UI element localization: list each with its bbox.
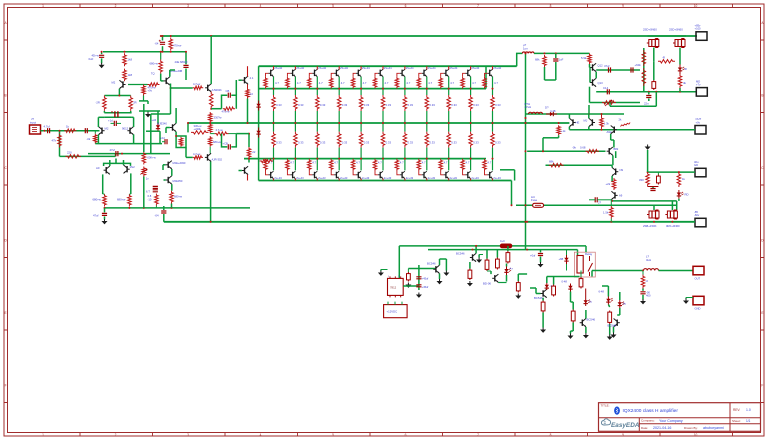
svg-text:0.33: 0.33: [408, 141, 414, 145]
wire r62 elbow: [139, 101, 148, 104]
svg-text:AJR-302: AJR-302: [212, 157, 223, 161]
svg-text:0.33: 0.33: [276, 141, 282, 145]
svg-text:-0: -0: [646, 279, 649, 283]
label R16: [128, 58, 133, 62]
wire servo top row: [526, 113, 625, 115]
label C14: [603, 86, 609, 90]
resistor R4c 0.33 lower: [337, 132, 341, 148]
transistor Q23 source: [119, 80, 125, 88]
diode D10 LED: [584, 298, 591, 306]
svg-text:0uF: 0uF: [89, 57, 94, 61]
svg-text:BC546: BC546: [587, 318, 596, 322]
label Q10b: [471, 176, 479, 180]
transistor Q2a 2SC5200 upper: [290, 66, 295, 76]
label R25: [216, 128, 223, 132]
svg-text:+2k: +2k: [606, 182, 611, 186]
svg-text:GND: GND: [695, 307, 701, 311]
label Q4b: [340, 176, 348, 180]
wire collector col low 10: [470, 158, 472, 171]
ground GND10: [476, 258, 482, 263]
wire mirror emitters: [103, 173, 131, 194]
svg-text:4.7: 4.7: [472, 81, 476, 85]
label R1b value: [276, 103, 282, 107]
label C10: [226, 89, 230, 93]
resistor R44 1.5k: [610, 200, 614, 222]
wire row132 left: [187, 122, 189, 132]
svg-text:680+w: 680+w: [150, 62, 159, 66]
label Q5b: [362, 176, 370, 180]
resistor R20 680K: [142, 152, 146, 165]
resistor R6d 4.7 base lower: [373, 159, 378, 175]
wire right gate drop: [676, 201, 678, 210]
label R63: [96, 101, 100, 105]
wire emitter col mid 3: [316, 111, 318, 132]
svg-text:-R: -R: [662, 56, 665, 60]
label R27: [222, 109, 230, 113]
wire gate rail2: [611, 200, 677, 202]
svg-text:2S+d4: 2S+d4: [318, 66, 326, 70]
wire q34 row: [596, 69, 640, 71]
wire base q44: [530, 288, 541, 294]
wire emitter col upper 8: [426, 77, 428, 95]
svg-text:A+: A+: [510, 267, 514, 271]
svg-text:680+w: 680+w: [213, 140, 221, 144]
label R11a value: [494, 81, 498, 85]
wire gnd10 stub: [479, 255, 483, 258]
svg-text:4.7+w: 4.7+w: [193, 152, 200, 156]
resistor R35 4k: [678, 74, 682, 88]
svg-text:+0d: +0d: [160, 136, 165, 140]
wire emitter col upper 2: [294, 77, 296, 95]
label R22: [148, 194, 152, 201]
svg-text:7812: 7812: [390, 286, 397, 290]
wire m1 source down: [653, 48, 655, 81]
wire bc546a net: [408, 265, 436, 272]
wire collector col low 7: [404, 158, 406, 171]
resistor R7a 4.7 base upper: [395, 73, 400, 88]
label C6: [93, 214, 99, 218]
svg-text:68k: 68k: [549, 159, 554, 163]
resistor R9c 0.33 lower: [447, 132, 451, 148]
wire v236 up: [235, 80, 237, 95]
diode D13: [156, 124, 160, 131]
label D7: [559, 257, 564, 261]
label Q35: [598, 81, 604, 85]
capacitor C9 CB lower: [228, 144, 230, 149]
svg-text:BC546: BC546: [456, 252, 465, 256]
wire d11 chain: [608, 290, 609, 335]
svg-text:4.7: 4.7: [363, 81, 367, 85]
svg-text:2S+d4: 2S+d4: [384, 66, 392, 70]
transistor Q39 servo: [569, 118, 575, 126]
diode D5 4148: [546, 112, 557, 116]
svg-text:330?w: 330?w: [214, 116, 222, 120]
wire q42 up: [475, 245, 477, 253]
wire emitter rail: [95, 134, 162, 143]
label R5c value: [364, 141, 370, 145]
svg-text:0.33: 0.33: [320, 141, 326, 145]
svg-text:E: E: [761, 311, 763, 315]
transistor Q43 BD140: [492, 274, 498, 282]
label J1: [30, 117, 36, 124]
junction fuse rail: [511, 204, 513, 206]
wire output bus: [188, 122, 569, 124]
label R8a value: [428, 81, 432, 85]
ground GND18: [640, 299, 646, 304]
svg-text:8: 8: [550, 4, 552, 8]
resistor R4a 4.7 base upper: [329, 73, 334, 88]
label L1: [523, 43, 528, 50]
svg-text:MJE+d030: MJE+d030: [173, 161, 186, 165]
resistor R7c 0.33 lower: [403, 132, 407, 148]
wire emitter col upper 7: [404, 77, 406, 95]
label C11: [559, 58, 564, 62]
wire vas column: [143, 104, 145, 208]
transistor Q32 pre-driver lower: [242, 166, 248, 180]
wire vbe stub: [175, 132, 177, 137]
wire collector col low 9: [448, 158, 450, 171]
connector P3 OUT: [695, 126, 706, 135]
wire q39 tips: [568, 114, 570, 130]
ground GND14: [568, 334, 574, 339]
wire gnd19 stub: [686, 298, 693, 299]
wire gnd3 stub: [647, 150, 649, 172]
label C18: [598, 201, 602, 205]
label R13: [52, 139, 57, 143]
svg-text:-00K+w: -00K+w: [147, 156, 156, 160]
svg-text:+7v: +7v: [696, 82, 701, 86]
label Q8b: [428, 176, 436, 180]
wire q28 up: [175, 108, 177, 123]
label Q24: [96, 166, 100, 170]
svg-text:2S+d4: 2S+d4: [340, 66, 348, 70]
resistor R46 1.3k: [600, 114, 604, 130]
svg-text:4.7: 4.7: [290, 160, 294, 164]
resistor R38 330: [646, 172, 650, 186]
svg-text:A9: A9: [619, 193, 623, 197]
transistor Q8a 2SC5200 upper: [422, 66, 427, 76]
svg-text:6: 6: [405, 4, 407, 8]
svg-text:1/1: 1/1: [746, 419, 751, 423]
svg-text:+45uf: +45uf: [422, 277, 429, 281]
label Q40: [584, 119, 588, 123]
svg-text:1k8: 1k8: [128, 73, 133, 77]
svg-text:0RF+0N60: 0RF+0N60: [666, 224, 680, 228]
transistor Q8b 2SA1943 lower: [422, 171, 427, 180]
diode D9 0.48: [568, 284, 572, 292]
svg-text:2S+d4: 2S+d4: [406, 66, 414, 70]
label P5: [694, 210, 700, 217]
ground GND3 inverted: [645, 145, 651, 150]
svg-text:B: B: [761, 94, 763, 98]
svg-text:1: 1: [42, 433, 44, 437]
wire q29 collector: [210, 36, 212, 84]
label R21: [174, 195, 182, 199]
ground GND19: [683, 299, 689, 304]
wire r55 gnd: [571, 323, 574, 334]
capacitor C11 1uF: [553, 53, 558, 80]
wire q23 emitter down: [118, 89, 120, 96]
junction neg rail: [104, 207, 173, 209]
svg-text:N9: N9: [620, 168, 624, 172]
svg-text:470+w: 470+w: [173, 44, 182, 48]
resistor R1a 4.7 base upper: [264, 73, 269, 88]
ground GND4: [378, 271, 384, 276]
resistor R50 box: [496, 250, 500, 270]
transistor Q27 MJE350: [166, 176, 172, 184]
transistor Q9a 2SC5200 upper: [444, 66, 449, 76]
resistor R4b 0.33 upper: [337, 95, 341, 111]
resistor R19 680 tail right: [128, 194, 132, 207]
transistor Q6a 2SC5200 upper: [378, 66, 383, 76]
svg-text:2v+d3: 2v+d3: [493, 176, 501, 180]
label Q11a: [493, 66, 501, 70]
transistor Q21 diff left: [98, 127, 104, 135]
transistor Q40 servo2: [589, 118, 595, 126]
svg-text:3: 3: [187, 4, 189, 8]
svg-text:0.33: 0.33: [495, 141, 501, 145]
ground GND12: [538, 262, 544, 267]
svg-text:A92: A92: [607, 130, 612, 134]
connector J3 OUT: [693, 266, 704, 275]
wire q12 down to servo: [588, 105, 590, 114]
wire r53 gnd: [542, 313, 544, 328]
resistor R36: [642, 50, 646, 66]
svg-text:Q12: Q12: [598, 64, 604, 68]
transistor Q37: [612, 168, 618, 176]
resistor R1d 4.7 base lower: [264, 159, 269, 175]
label Q30: [250, 76, 254, 80]
wire q41 up: [440, 259, 447, 265]
ground GND16: [607, 335, 613, 340]
wire collector box lower: [104, 116, 131, 118]
resistor R2c 0.33 lower: [294, 132, 298, 148]
date label: [641, 426, 724, 430]
label R3c value: [320, 141, 326, 145]
resistor R43: [612, 178, 616, 190]
diode D4 LED: [677, 190, 684, 199]
label R45: [561, 129, 566, 133]
wire collector col low 1: [273, 158, 275, 171]
svg-text:AJW02b: AJW02b: [212, 88, 223, 92]
wire second bus: [259, 88, 486, 90]
label D12: [623, 302, 626, 306]
label R41: [572, 145, 586, 149]
label Q6b: [384, 176, 392, 180]
wire row 151: [527, 150, 605, 152]
wire elbow right: [146, 131, 160, 143]
svg-text:5.9k: 5.9k: [581, 56, 587, 60]
label R10a value: [472, 81, 476, 85]
label R6c value: [386, 141, 392, 145]
svg-text:0.33: 0.33: [364, 103, 370, 107]
wire gnd4 stub: [381, 270, 388, 271]
transistor Q25 mirror right: [124, 165, 130, 173]
svg-text:BC546: BC546: [427, 262, 436, 266]
resistor R8b 0.33 upper: [425, 95, 429, 111]
connector P5 -V: [695, 218, 706, 227]
wire emitter col upper 10: [470, 77, 472, 95]
label C15: [644, 102, 649, 106]
label Q47: [607, 130, 612, 134]
wire relay to L2: [642, 270, 645, 272]
resistor R8d 4.7 base lower: [417, 159, 422, 175]
label D8: [550, 284, 554, 288]
label R58: [646, 279, 649, 283]
svg-text:4.7: 4.7: [406, 81, 410, 85]
resistor R15 470: [169, 35, 173, 53]
resistor R60 680 mid: [159, 51, 163, 74]
transistor Q36: [607, 147, 613, 155]
resistor R29 4.7 base lower: [193, 156, 203, 159]
ground GND20: [145, 112, 151, 117]
wire q34 q35 link: [590, 64, 597, 83]
svg-text:2?: 2?: [598, 201, 602, 205]
wire bottom emitter bus: [259, 180, 512, 182]
resistor R28 10 emitter: [246, 84, 250, 98]
svg-text:6.T: 6.T: [146, 189, 150, 193]
wire emitter col mid 1: [273, 111, 275, 132]
svg-text:-60v: -60v: [694, 213, 700, 217]
svg-text:M2: M2: [105, 127, 109, 131]
label R69: [213, 140, 221, 144]
resistor R66 emitter: [209, 92, 213, 109]
wire vas emitters: [163, 165, 172, 191]
resistor R63 load left: [103, 96, 107, 111]
inductor L3 47uH: [529, 112, 543, 114]
transistor Q41 BC546: [433, 265, 439, 273]
label R3b value: [320, 103, 326, 107]
wire collector col low 6: [382, 158, 384, 171]
resistor R69 to q31: [208, 136, 212, 153]
wire emitter col upper 4: [338, 77, 340, 95]
resistor R9b 0.33 upper: [447, 95, 451, 111]
svg-text:+1d: +1d: [108, 118, 113, 122]
label D13: [152, 118, 157, 122]
wire q46 links: [614, 292, 620, 333]
label R6a value: [385, 81, 389, 85]
svg-text:RD: RD: [685, 193, 689, 197]
label Q1b: [274, 176, 282, 180]
wire emitter col mid 11: [492, 111, 494, 132]
label R17: [128, 73, 133, 77]
label Q11b: [493, 176, 501, 180]
title text: [623, 408, 679, 414]
svg-text:IQX2400 class H amplifier: IQX2400 class H amplifier: [623, 408, 679, 414]
label P1: [695, 23, 702, 30]
capacitor C10 CB: [228, 93, 230, 98]
title block bluetooth logo: [614, 407, 620, 415]
wire bus6 elbow extra: [500, 170, 515, 181]
wire emitter col mid 8: [426, 111, 428, 132]
label C22: [646, 291, 651, 298]
ground GND13: [540, 328, 546, 333]
label Q38: [619, 193, 623, 197]
svg-text:/R: /R: [684, 67, 687, 71]
relay K1: [574, 252, 595, 277]
wire bus1 to L1 jog: [517, 53, 523, 66]
svg-text:47uf: 47uf: [604, 64, 610, 68]
label Q45: [587, 318, 596, 322]
label C21: [530, 254, 536, 258]
wire input shunt vertical: [59, 130, 61, 157]
svg-text:2SD+0N60: 2SD+0N60: [643, 28, 657, 32]
fuse F1: [533, 203, 544, 207]
label R38: [639, 178, 644, 182]
svg-text:+45uf: +45uf: [422, 285, 429, 289]
svg-text:4D+w: 4D+w: [92, 54, 100, 58]
wire q29 base left: [170, 87, 193, 89]
svg-text:2u: 2u: [589, 300, 592, 304]
label R32: [535, 58, 540, 62]
svg-text:4.7: 4.7: [444, 160, 448, 164]
label R5d value: [356, 160, 360, 164]
label R29: [193, 152, 200, 156]
resistor R47 box: [407, 269, 411, 282]
svg-text:4.7: 4.7: [450, 81, 454, 85]
svg-text:D?: D?: [545, 106, 549, 110]
label Q43: [483, 282, 491, 286]
svg-text:REV:: REV:: [733, 408, 740, 412]
svg-text:Drawn By:: Drawn By:: [684, 426, 698, 430]
resistor R41 0.68: [586, 150, 600, 153]
svg-text:1uF: 1uF: [559, 58, 564, 62]
label Q2: [151, 69, 183, 76]
wire q36 down: [612, 155, 614, 165]
svg-text:2v+d3: 2v+d3: [384, 176, 392, 180]
svg-text:2v+d3: 2v+d3: [362, 176, 370, 180]
transistor Q2 pre: [164, 77, 170, 85]
svg-text:2v+d3: 2v+d3: [340, 176, 348, 180]
svg-text:+88: +88: [559, 257, 564, 261]
svg-text:+100: +100: [695, 26, 702, 30]
svg-text:-0k: -0k: [87, 137, 91, 141]
resistor R13 47k shunt: [58, 134, 62, 148]
resistor R56 box: [579, 271, 583, 289]
svg-text:0-48: 0-48: [562, 280, 568, 284]
wire array left rail: [258, 66, 260, 180]
wire left gate rail: [643, 48, 645, 92]
svg-text:-10: -10: [148, 197, 152, 201]
ground GND9: [467, 281, 473, 286]
wire collector col low 2: [294, 158, 296, 171]
resistor R57 box: [608, 311, 612, 325]
wire emitter col mid 10: [470, 111, 472, 132]
wire emitter col mid 6: [382, 111, 384, 132]
wire collector col low 11: [492, 158, 494, 171]
wire q32 links: [239, 133, 251, 171]
wire feedback lower: [60, 155, 116, 157]
wire mirror bases: [104, 159, 131, 167]
capacitor C16: [648, 187, 659, 191]
transistor Q34 rail switch drv: [590, 63, 596, 71]
label C5: [89, 54, 100, 62]
svg-text:4.7: 4.7: [319, 81, 323, 85]
trimmer RV2: [602, 100, 616, 106]
label R70: [619, 118, 623, 122]
svg-text:abuboryanmi: abuboryanmi: [703, 426, 724, 430]
label Q1a: [274, 66, 282, 70]
svg-text:0.33: 0.33: [451, 103, 457, 107]
resistor R11a 4.7 base upper: [483, 73, 488, 88]
label R24: [194, 124, 202, 131]
label R2b value: [298, 103, 304, 107]
wire vas to neg rail: [171, 204, 173, 208]
wire emitter col mid 7: [404, 111, 406, 132]
mosfet M3: [647, 210, 659, 219]
capacitor C20 elec: [416, 285, 428, 289]
svg-text:TQ: TQ: [151, 72, 155, 76]
